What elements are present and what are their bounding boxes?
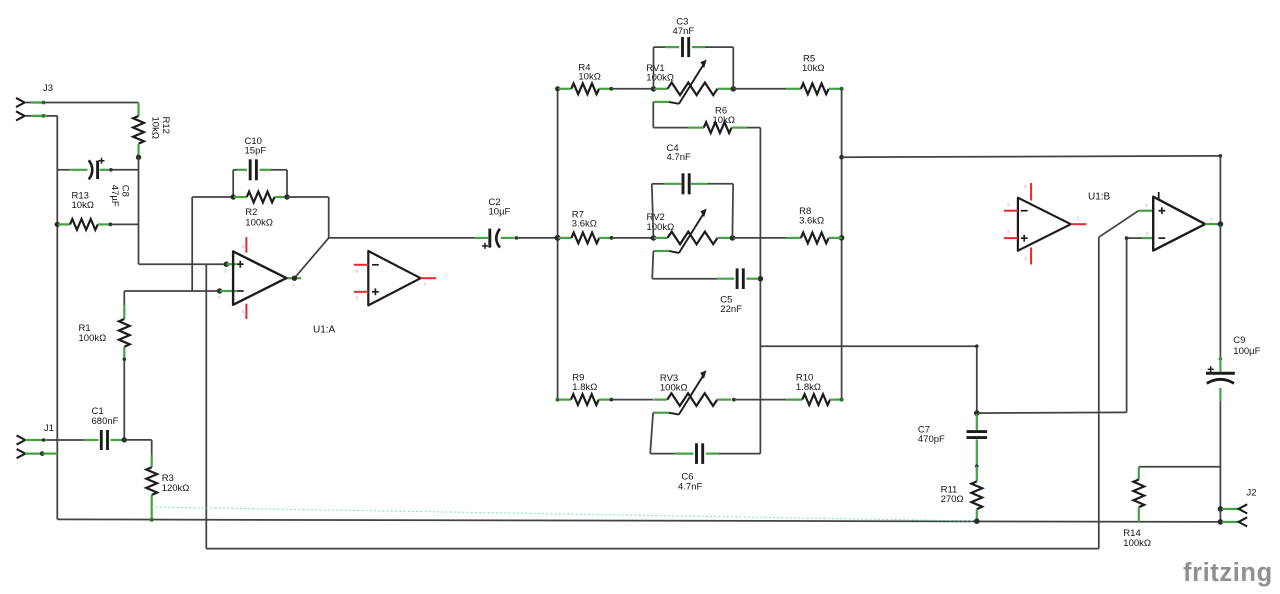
svg-text:100kΩ: 100kΩ [1123, 538, 1151, 549]
svg-text:470pF: 470pF [918, 434, 945, 445]
svg-text:10kΩ: 10kΩ [150, 117, 161, 139]
svg-text:J1: J1 [44, 423, 54, 434]
svg-text:47nF: 47nF [673, 26, 695, 37]
svg-text:22nF: 22nF [720, 304, 742, 315]
svg-text:U1:B: U1:B [1088, 191, 1111, 202]
svg-text:100kΩ: 100kΩ [660, 383, 688, 394]
svg-text:C8: C8 [120, 185, 131, 197]
svg-text:100kΩ: 100kΩ [647, 222, 675, 233]
svg-text:4.7nF: 4.7nF [678, 481, 702, 492]
svg-text:3.6kΩ: 3.6kΩ [572, 219, 597, 230]
svg-text:10kΩ: 10kΩ [713, 115, 735, 126]
svg-text:1.8kΩ: 1.8kΩ [796, 382, 821, 393]
svg-text:120kΩ: 120kΩ [162, 483, 190, 494]
svg-text:U1:A: U1:A [313, 325, 336, 336]
svg-text:100kΩ: 100kΩ [79, 333, 107, 344]
svg-text:fritzing: fritzing [1183, 559, 1273, 587]
svg-text:R12: R12 [160, 117, 171, 134]
svg-text:10kΩ: 10kΩ [802, 63, 824, 74]
svg-text:C9: C9 [1233, 335, 1245, 346]
svg-text:100µF: 100µF [1233, 346, 1260, 357]
svg-text:10kΩ: 10kΩ [72, 200, 94, 211]
svg-text:270Ω: 270Ω [941, 494, 964, 505]
svg-text:10µF: 10µF [489, 207, 511, 218]
svg-text:100kΩ: 100kΩ [646, 73, 674, 84]
svg-text:4.7nF: 4.7nF [667, 152, 691, 163]
svg-text:10kΩ: 10kΩ [578, 72, 600, 83]
svg-text:1.8kΩ: 1.8kΩ [572, 382, 597, 393]
svg-text:47µF: 47µF [109, 185, 120, 207]
svg-text:3.6kΩ: 3.6kΩ [799, 216, 824, 227]
svg-text:15pF: 15pF [245, 145, 267, 156]
svg-text:680nF: 680nF [92, 416, 119, 427]
svg-text:J2: J2 [1247, 488, 1257, 499]
svg-text:J3: J3 [43, 83, 53, 94]
svg-text:100kΩ: 100kΩ [245, 217, 273, 228]
